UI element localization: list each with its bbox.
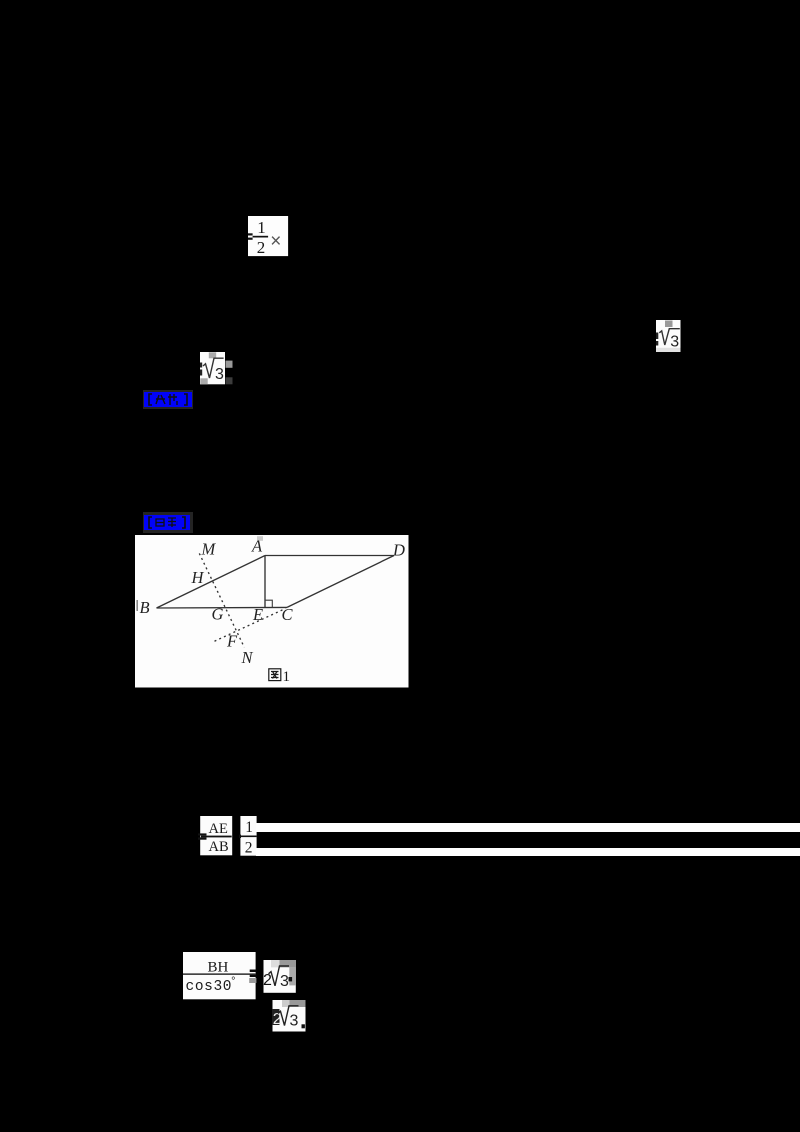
svg-text:°: ° <box>230 976 237 988</box>
svg-text:H: H <box>191 568 205 587</box>
svg-text:3: 3 <box>280 973 289 990</box>
dark halo around blue block 1 <box>143 390 193 409</box>
side AD <box>265 555 394 557</box>
svg-text:1: 1 <box>257 217 266 236</box>
svg-text:B: B <box>140 598 150 617</box>
svg-text:3: 3 <box>289 1012 298 1029</box>
formula patch "=1/2 x" <box>248 216 289 257</box>
altitude AE <box>264 556 266 608</box>
svg-text:N: N <box>241 648 254 667</box>
svg-text:2: 2 <box>263 972 272 989</box>
formula patch "2√3" left <box>200 352 233 385</box>
long white bar denominator row <box>256 848 800 856</box>
side BC <box>157 606 288 609</box>
long white bar numerator row <box>256 823 800 832</box>
svg-text:A: A <box>251 537 263 556</box>
svg-text:×: × <box>270 231 281 252</box>
fraction AE/AB <box>198 816 233 856</box>
blue highlight block 1 <box>144 392 192 407</box>
artifact gray square near A <box>257 536 263 541</box>
equals after BH fraction <box>249 969 257 983</box>
left tick near B <box>136 600 138 611</box>
dashed line MN <box>199 553 244 647</box>
svg-text:2: 2 <box>272 1011 281 1028</box>
fraction BH/cos30 <box>183 952 256 1000</box>
svg-text:cos30: cos30 <box>186 979 232 995</box>
geometry figure box <box>135 535 409 688</box>
svg-text:BH: BH <box>208 959 229 975</box>
blue highlight block 2 <box>144 515 190 530</box>
svg-text:G: G <box>212 604 224 623</box>
svg-text:F: F <box>226 631 238 650</box>
svg-text:1: 1 <box>283 669 291 685</box>
svg-text:E: E <box>252 605 263 624</box>
side BA <box>157 556 266 609</box>
svg-text:D: D <box>392 541 405 560</box>
svg-text:3: 3 <box>670 333 679 350</box>
dashed line FC <box>215 609 286 642</box>
side CD <box>287 556 394 608</box>
formula patch "2√3." <box>272 1000 306 1032</box>
svg-text:AB: AB <box>208 839 228 855</box>
caption 图1 <box>269 669 281 681</box>
fraction 1/2 <box>239 816 257 856</box>
formula patch "2√3" top right <box>656 320 681 353</box>
svg-text:C: C <box>282 605 294 624</box>
formula patch "2√3," <box>263 960 296 993</box>
svg-text:AE: AE <box>208 820 227 836</box>
dark halo around blue block 2 <box>143 512 193 533</box>
right angle mark at E <box>265 600 272 607</box>
svg-text:3: 3 <box>215 366 224 383</box>
svg-text:2: 2 <box>257 238 266 257</box>
svg-text:M: M <box>201 540 217 559</box>
svg-text:1: 1 <box>245 819 253 836</box>
svg-text:2: 2 <box>244 839 252 856</box>
